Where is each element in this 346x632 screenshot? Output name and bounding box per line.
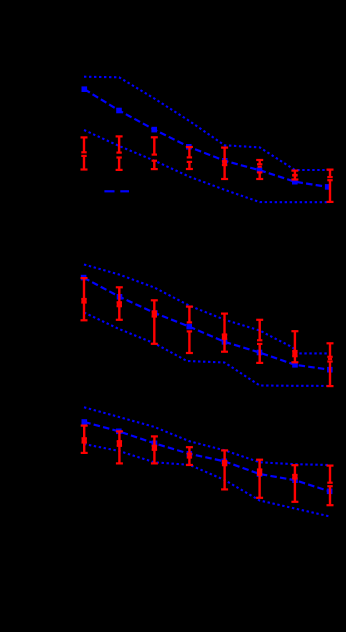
- red error bar pair P4 (top subplot): [186, 147, 193, 169]
- red error bar pair P7 (top subplot): [291, 171, 298, 180]
- red error bar pair P1 (middle subplot): [81, 278, 88, 320]
- upper confidence bound (top subplot): [84, 77, 330, 170]
- blue square markers (top subplot): [82, 86, 331, 189]
- red error bar pair P8 (top subplot): [327, 170, 334, 202]
- upper confidence bound (bottom subplot): [84, 407, 330, 465]
- red error bar pair P2 (middle subplot): [116, 287, 123, 320]
- red error bar pair P5 (middle subplot): [221, 314, 228, 352]
- blue square markers (middle subplot): [81, 275, 333, 373]
- red error bar pair P6 (middle subplot): [256, 320, 263, 363]
- red error bar pair P6 (top subplot): [256, 160, 263, 179]
- red error bar pair P7 (bottom subplot): [291, 465, 298, 502]
- lower confidence bound (bottom subplot): [84, 444, 330, 517]
- red error bar pair P3 (top subplot): [151, 137, 158, 169]
- legend dashed-line sample (top subplot): [104, 190, 129, 192]
- red error bar pair P2 (bottom subplot): [116, 431, 123, 463]
- dashed mean line (middle subplot): [84, 278, 330, 370]
- blue square markers (bottom subplot): [82, 419, 333, 494]
- red error bar pair P2 (top subplot): [116, 136, 123, 170]
- red error bar pair P8 (bottom subplot): [327, 466, 334, 506]
- red error bar pair P3 (bottom subplot): [151, 436, 158, 463]
- dashed mean line (bottom subplot): [84, 422, 329, 491]
- red error bar pair P1 (top subplot): [81, 137, 88, 169]
- red error bar pair P5 (bottom subplot): [221, 450, 228, 489]
- lower confidence bound (top subplot): [84, 130, 330, 202]
- red error bar pair P1 (bottom subplot): [81, 426, 88, 453]
- red error bar pair P6 (bottom subplot): [256, 460, 263, 498]
- dashed mean line (top subplot): [84, 89, 327, 187]
- red error bar pair P5 (top subplot): [221, 148, 228, 179]
- red error bar pair P8 (middle subplot): [327, 343, 334, 386]
- red error bar pair P3 (middle subplot): [151, 300, 158, 344]
- red error bar pair P4 (bottom subplot): [186, 447, 193, 465]
- lower confidence bound (middle subplot): [84, 313, 330, 386]
- upper confidence bound (middle subplot): [84, 265, 330, 354]
- red error bar pair P4 (middle subplot): [186, 307, 193, 353]
- red error bar pair P7 (middle subplot): [291, 331, 298, 362]
